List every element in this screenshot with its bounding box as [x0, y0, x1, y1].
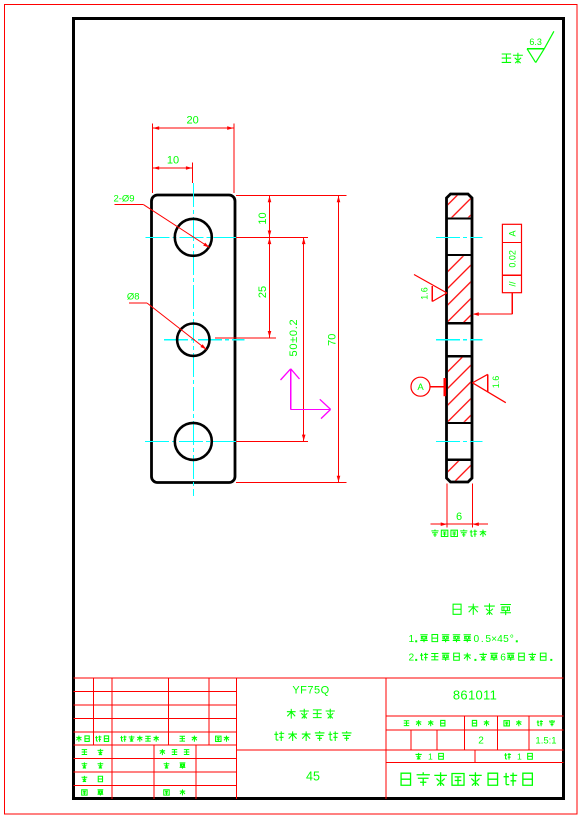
extension line plate bottom right	[236, 482, 347, 484]
svg-text:45: 45	[306, 769, 320, 783]
title row labels	[76, 736, 81, 742]
svg-text:70: 70	[326, 334, 338, 346]
centerline hole 1	[146, 236, 237, 238]
svg-text:10: 10	[167, 155, 179, 167]
tolerance leader	[511, 293, 513, 314]
dimension 6	[446, 484, 448, 528]
svg-text:YF75Q: YF75Q	[292, 685, 329, 697]
svg-text:1: 1	[408, 634, 414, 645]
side view section lines	[447, 217, 473, 219]
svg-text:1: 1	[428, 751, 433, 761]
dimension 10 right	[269, 195, 271, 237]
datum symbol A	[411, 377, 430, 396]
hatching bands	[448, 196, 471, 218]
hole 3 (Ø9 bottom)	[175, 423, 212, 460]
side view bar outline	[447, 194, 473, 482]
svg-text:6: 6	[456, 511, 462, 523]
extension line plate top right	[236, 194, 347, 196]
note 其余	[502, 54, 511, 62]
heading 技术要求	[453, 604, 461, 614]
centerline vertical	[192, 183, 194, 496]
svg-text:°: °	[510, 634, 514, 645]
svg-text:2: 2	[408, 652, 414, 663]
company name 地球发展有限公司	[401, 773, 410, 785]
extension line hole2 right	[215, 337, 276, 339]
svg-text:0: 0	[473, 634, 479, 645]
right header cells	[404, 721, 409, 726]
svg-text:.: .	[481, 634, 484, 645]
sheet counts	[415, 753, 421, 760]
svg-text:0.02: 0.02	[508, 250, 518, 268]
hole 2 (Ø8 middle)	[177, 324, 209, 356]
svg-text:2-Ø9: 2-Ø9	[113, 193, 134, 204]
svg-text:6: 6	[500, 652, 506, 663]
svg-text:6.3: 6.3	[529, 37, 542, 47]
svg-text:A: A	[417, 382, 424, 393]
leader 2-Ø9	[115, 204, 144, 206]
note 含装配调整量	[431, 530, 438, 537]
dimension 25	[269, 237, 271, 337]
hole 1 (Ø9 top)	[175, 219, 212, 256]
svg-text:1: 1	[517, 751, 522, 761]
coordinate arrow symbol	[290, 369, 292, 410]
parallelism tolerance frame	[502, 224, 521, 292]
svg-text:5: 5	[503, 634, 509, 645]
roughness symbol 6.3	[527, 48, 544, 50]
svg-text:Ø8: Ø8	[127, 292, 140, 303]
centerline hole 3	[145, 440, 236, 442]
dimension 20	[151, 124, 153, 194]
dimension 50±0.2	[303, 237, 305, 441]
leader Ø8	[129, 302, 147, 304]
extension line hole3 right	[236, 440, 308, 442]
svg-text:2: 2	[478, 736, 484, 747]
front view plate outline	[152, 195, 236, 483]
svg-text:1.6: 1.6	[491, 376, 501, 389]
svg-text:1.6: 1.6	[419, 287, 429, 300]
svg-text:20: 20	[186, 115, 198, 127]
dimension 70	[338, 195, 340, 482]
signature rows	[82, 750, 87, 755]
svg-text:A: A	[508, 230, 518, 236]
dimension 10 top	[192, 163, 194, 183]
svg-text:861011: 861011	[453, 687, 497, 702]
svg-text://: //	[508, 281, 518, 287]
title block grid	[74, 677, 564, 679]
roughness symbol right 1.6	[473, 383, 506, 403]
svg-text:50±0.2: 50±0.2	[288, 319, 300, 357]
side view centerlines	[436, 236, 483, 238]
centerline hole 2	[164, 339, 245, 341]
svg-text:1.5:1: 1.5:1	[535, 736, 556, 747]
svg-text:25: 25	[257, 286, 269, 298]
svg-text:10: 10	[257, 212, 269, 224]
extension line hole1 right	[236, 236, 308, 238]
roughness symbol left 1.6	[414, 275, 447, 294]
